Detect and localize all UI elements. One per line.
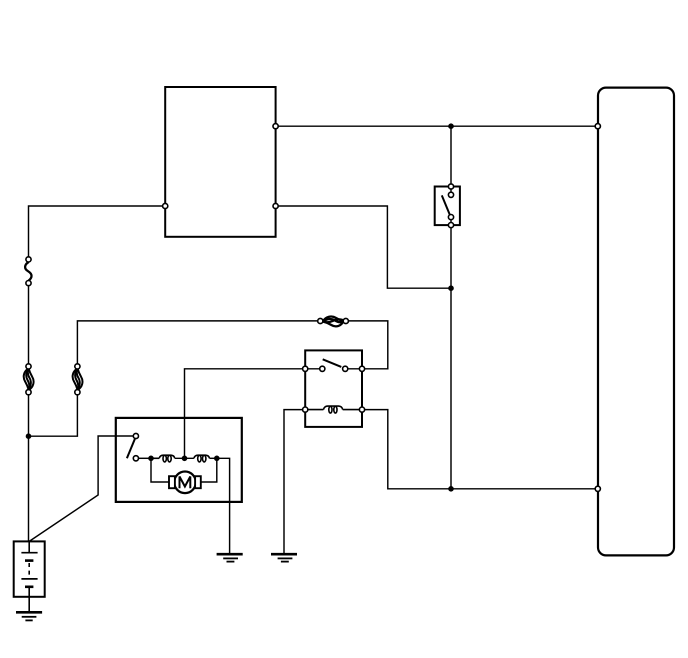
battery plate short 2 <box>25 585 33 588</box>
wire left node to motor left brush <box>151 458 169 482</box>
pin U1 left <box>163 203 168 208</box>
wire vertical feed into switch S1 <box>450 126 452 186</box>
fuse F1 (braided) <box>24 368 34 390</box>
battery plate short 1 <box>25 559 33 562</box>
motor left brush <box>169 476 175 488</box>
wire from relay K1 lower left pin to ground <box>284 410 305 555</box>
motor unit switch contact circles <box>133 433 138 438</box>
wire from battery positive to motor unit switch <box>29 436 133 541</box>
relay K1 coil <box>305 406 362 413</box>
box U2 right module (rounded) <box>598 88 674 556</box>
switch S1 enclosure <box>435 187 460 226</box>
ground from relay K1 <box>271 554 297 561</box>
coil L1 <box>151 455 175 462</box>
wire top bus from U1 pin to U2 pin <box>276 125 598 127</box>
node junction mid <box>448 285 454 291</box>
battery BT1 enclosure <box>14 541 45 596</box>
battery bottom stub to ground <box>28 587 30 613</box>
motor unit switch arm <box>127 439 135 458</box>
node left coil <box>148 456 154 462</box>
wire from U1 lower right pin to node at main vertical <box>276 206 451 288</box>
wire stub S1 contact to bottom pin <box>450 217 452 225</box>
wire between FL1 and fuse F1 <box>28 283 30 366</box>
switch S1 pin circles <box>448 184 453 189</box>
fuse F3 (braided, horizontal) <box>323 317 344 327</box>
fuse F2 (braided) <box>73 368 83 390</box>
pin U2 upper <box>595 124 600 129</box>
motor letter M <box>180 477 191 489</box>
node junction bottom bus <box>448 486 454 492</box>
wire from relay K1 lower right pin to bottom bus and U2 pin <box>362 410 598 489</box>
box U1 control unit <box>165 87 275 237</box>
wire right node to motor right brush <box>201 458 217 482</box>
pin U2 lower <box>595 486 600 491</box>
node right coil <box>214 456 220 462</box>
wire from F1 down to battery positive <box>28 392 30 541</box>
node center coil <box>182 456 188 462</box>
wire from relay K1 upper left pin to motor unit coil center <box>185 369 306 459</box>
wire segment between coils L1 and L2 <box>175 457 194 459</box>
switch S1 arm <box>442 195 450 214</box>
node junction top bus <box>448 123 454 129</box>
wire stub relay contact to right pin <box>345 368 362 370</box>
motor right brush <box>195 476 201 488</box>
motor unit M1 enclosure <box>116 418 242 502</box>
wire from motor switch lower contact to left coil node <box>136 457 151 459</box>
relay K1 contact arm <box>323 359 342 367</box>
wire from coil L2 to right node <box>210 457 217 459</box>
battery dashed middle <box>28 563 30 577</box>
coil L2 <box>194 455 210 462</box>
wire branch from node to fuse F2 <box>29 392 78 436</box>
wire stub relay left pin to contact <box>305 368 322 370</box>
relay K1 contact circles <box>320 366 325 371</box>
ground under motor unit <box>217 554 243 561</box>
ground under battery <box>16 612 42 620</box>
switch S1 inner contact circles <box>448 192 453 197</box>
fusible link FL1 <box>25 262 31 281</box>
wire main vertical from S1 down to bottom bus <box>450 225 452 489</box>
wire stub S1 top pin to contact <box>450 187 452 195</box>
battery plate long 2 <box>21 578 37 580</box>
battery plate long 1 <box>21 552 37 554</box>
battery top stub <box>28 541 30 552</box>
pin U1 upper right <box>273 124 278 129</box>
pin U1 lower right <box>273 203 278 208</box>
wire from F2 up and right to fuse F3 <box>77 321 320 367</box>
motor M circle <box>174 472 196 494</box>
wire from U1 left pin down to fusible link FL1 <box>29 206 166 259</box>
relay K1 enclosure <box>305 350 362 427</box>
wire from right node down to ground below motor unit <box>217 458 230 554</box>
relay K1 pin circles <box>303 366 308 371</box>
wire from F3 to relay K1 upper right pin <box>346 321 388 369</box>
node junction battery branch <box>26 433 32 439</box>
